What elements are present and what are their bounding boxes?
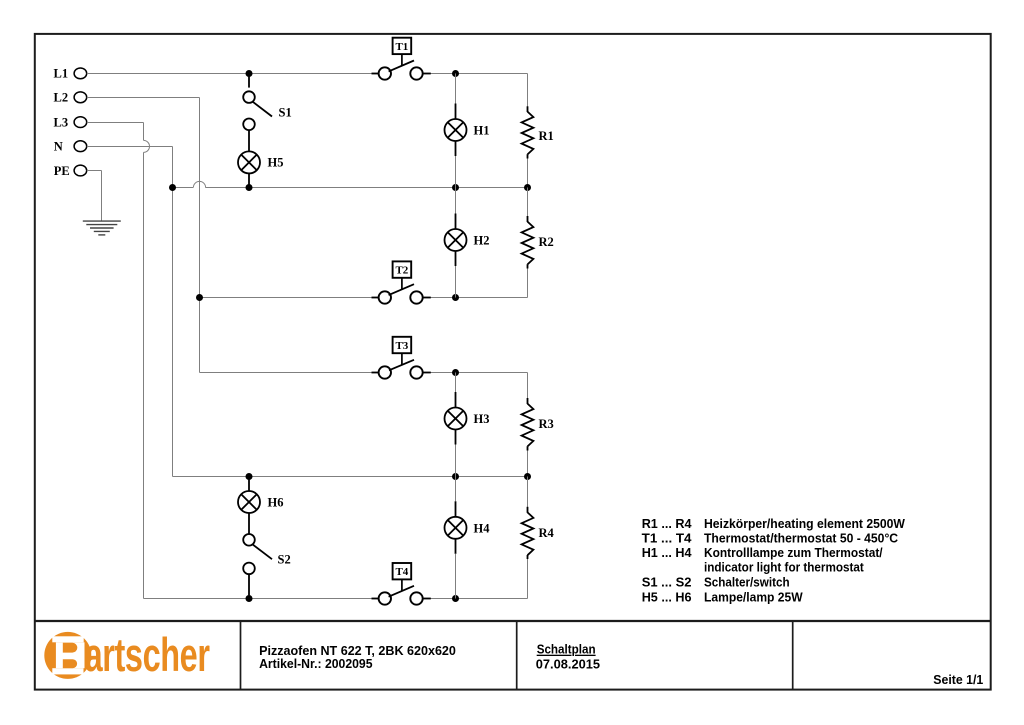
wire L2 feeder: [87, 98, 200, 373]
svg-text:PE: PE: [54, 164, 70, 178]
svg-text:T1: T1: [395, 41, 408, 53]
resistor R1: [522, 106, 554, 158]
thermostat T4: [372, 563, 431, 605]
svg-text:H1: H1: [474, 124, 490, 138]
svg-text:L2: L2: [54, 91, 69, 105]
terminal L2: [54, 91, 87, 105]
terminal L3: [54, 116, 87, 130]
title text Schaltplan: [536, 642, 600, 672]
lamp H2: [445, 188, 490, 298]
thermostat T2: [372, 261, 431, 303]
terminal PE: [54, 164, 87, 178]
terminal L1: [54, 66, 87, 80]
svg-text:H5 ... H6: H5 ... H6: [642, 589, 692, 604]
svg-text:R1: R1: [539, 129, 554, 143]
svg-text:H5: H5: [268, 156, 284, 170]
wire L3 feeder with hop over N: [87, 123, 150, 599]
wire right rail top (L1 to R1 to mid bus): [527, 74, 529, 188]
node R1R2-midbus junction: [524, 184, 531, 191]
ground: [83, 221, 121, 235]
node T3bus-H3 junction: [452, 369, 459, 376]
svg-text:R2: R2: [539, 235, 554, 249]
svg-text:Artikel-Nr.: 2002095: Artikel-Nr.: 2002095: [259, 656, 372, 671]
svg-text:L1: L1: [54, 66, 69, 80]
title text Seite: [933, 672, 983, 687]
legend text: [642, 516, 906, 604]
svg-text:R1 ... R4: R1 ... R4: [642, 516, 692, 531]
svg-text:07.08.2015: 07.08.2015: [536, 657, 600, 672]
wire right rail row2: [527, 188, 529, 298]
thermostat T1: [372, 38, 431, 80]
wire N feeder: [87, 147, 173, 477]
svg-text:H4: H4: [474, 521, 491, 535]
svg-text:H1 ... H4: H1 ... H4: [642, 545, 692, 560]
node L1-H1 junction: [452, 70, 459, 77]
lamp H4: [445, 477, 491, 599]
wire L1 bus: [87, 73, 528, 75]
svg-text:T3: T3: [395, 340, 408, 352]
svg-text:S1: S1: [279, 106, 292, 120]
svg-text:H2: H2: [474, 234, 490, 248]
wire PE to ground: [87, 171, 102, 222]
svg-text:H3: H3: [474, 412, 490, 426]
node L2-T2 junction: [196, 294, 203, 301]
svg-text:S2: S2: [278, 552, 291, 566]
resistor R2: [522, 216, 554, 269]
node H1H2-midbus junction: [452, 184, 459, 191]
svg-text:S1 ... S2: S1 ... S2: [642, 575, 692, 590]
wire T2 bus: [200, 297, 528, 299]
svg-text:L3: L3: [54, 116, 69, 130]
wire row3 bottom bus: [173, 476, 528, 478]
svg-text:T4: T4: [395, 566, 408, 578]
svg-text:Lampe/lamp 25W: Lampe/lamp 25W: [704, 589, 803, 604]
thermostat T3: [372, 337, 431, 379]
svg-text:N: N: [54, 139, 63, 153]
wire mid bus with hop over L2: [173, 181, 528, 187]
node N-midbus junction: [169, 184, 176, 191]
node S2-T4bus junction: [246, 595, 253, 602]
wire right rail row3: [527, 373, 529, 477]
switch S1: [243, 77, 292, 131]
svg-text:T2: T2: [395, 265, 408, 277]
node H3-bus junction: [452, 473, 459, 480]
resistor R3: [522, 398, 554, 451]
svg-text:R3: R3: [539, 417, 554, 431]
terminal N: [54, 139, 87, 153]
lamp H5: [238, 130, 283, 185]
svg-text:R4: R4: [539, 526, 555, 540]
lamp H3: [445, 373, 490, 477]
svg-text:Thermostat/thermostat 50 - 450: Thermostat/thermostat 50 - 450°C: [704, 531, 899, 546]
node R3-bus junction: [524, 473, 531, 480]
node H2-T2bus junction: [452, 294, 459, 301]
svg-text:T1 ... T4: T1 ... T4: [642, 531, 692, 546]
wire T4 bus: [144, 598, 528, 600]
svg-text:indicator light for thermostat: indicator light for thermostat: [704, 559, 864, 574]
svg-text:Heizkörper/heating element 250: Heizkörper/heating element 2500W: [704, 516, 905, 531]
node L1-S1 junction: [246, 70, 253, 77]
svg-text:Kontrolllampe zum Thermostat/: Kontrolllampe zum Thermostat/: [704, 545, 883, 560]
svg-text:H6: H6: [268, 496, 284, 510]
svg-text:Schalter/switch: Schalter/switch: [704, 575, 790, 590]
lamp H6: [238, 480, 283, 534]
title text Pizzaofen: [259, 643, 456, 671]
node H4-T4bus junction: [452, 595, 459, 602]
svg-text:Seite 1/1: Seite 1/1: [933, 672, 983, 687]
title block: [35, 621, 991, 690]
node H6-bus junction: [246, 473, 253, 480]
svg-text:Schaltplan: Schaltplan: [537, 642, 596, 657]
Bartscher logo: [44, 628, 210, 682]
wire right rail row4: [527, 477, 529, 599]
svg-text:artscher: artscher: [85, 628, 210, 682]
lamp H1: [445, 74, 490, 188]
node H5-midbus junction: [246, 184, 253, 191]
switch S2: [243, 534, 291, 595]
wire T3 bus: [200, 372, 528, 374]
resistor R4: [522, 507, 555, 559]
